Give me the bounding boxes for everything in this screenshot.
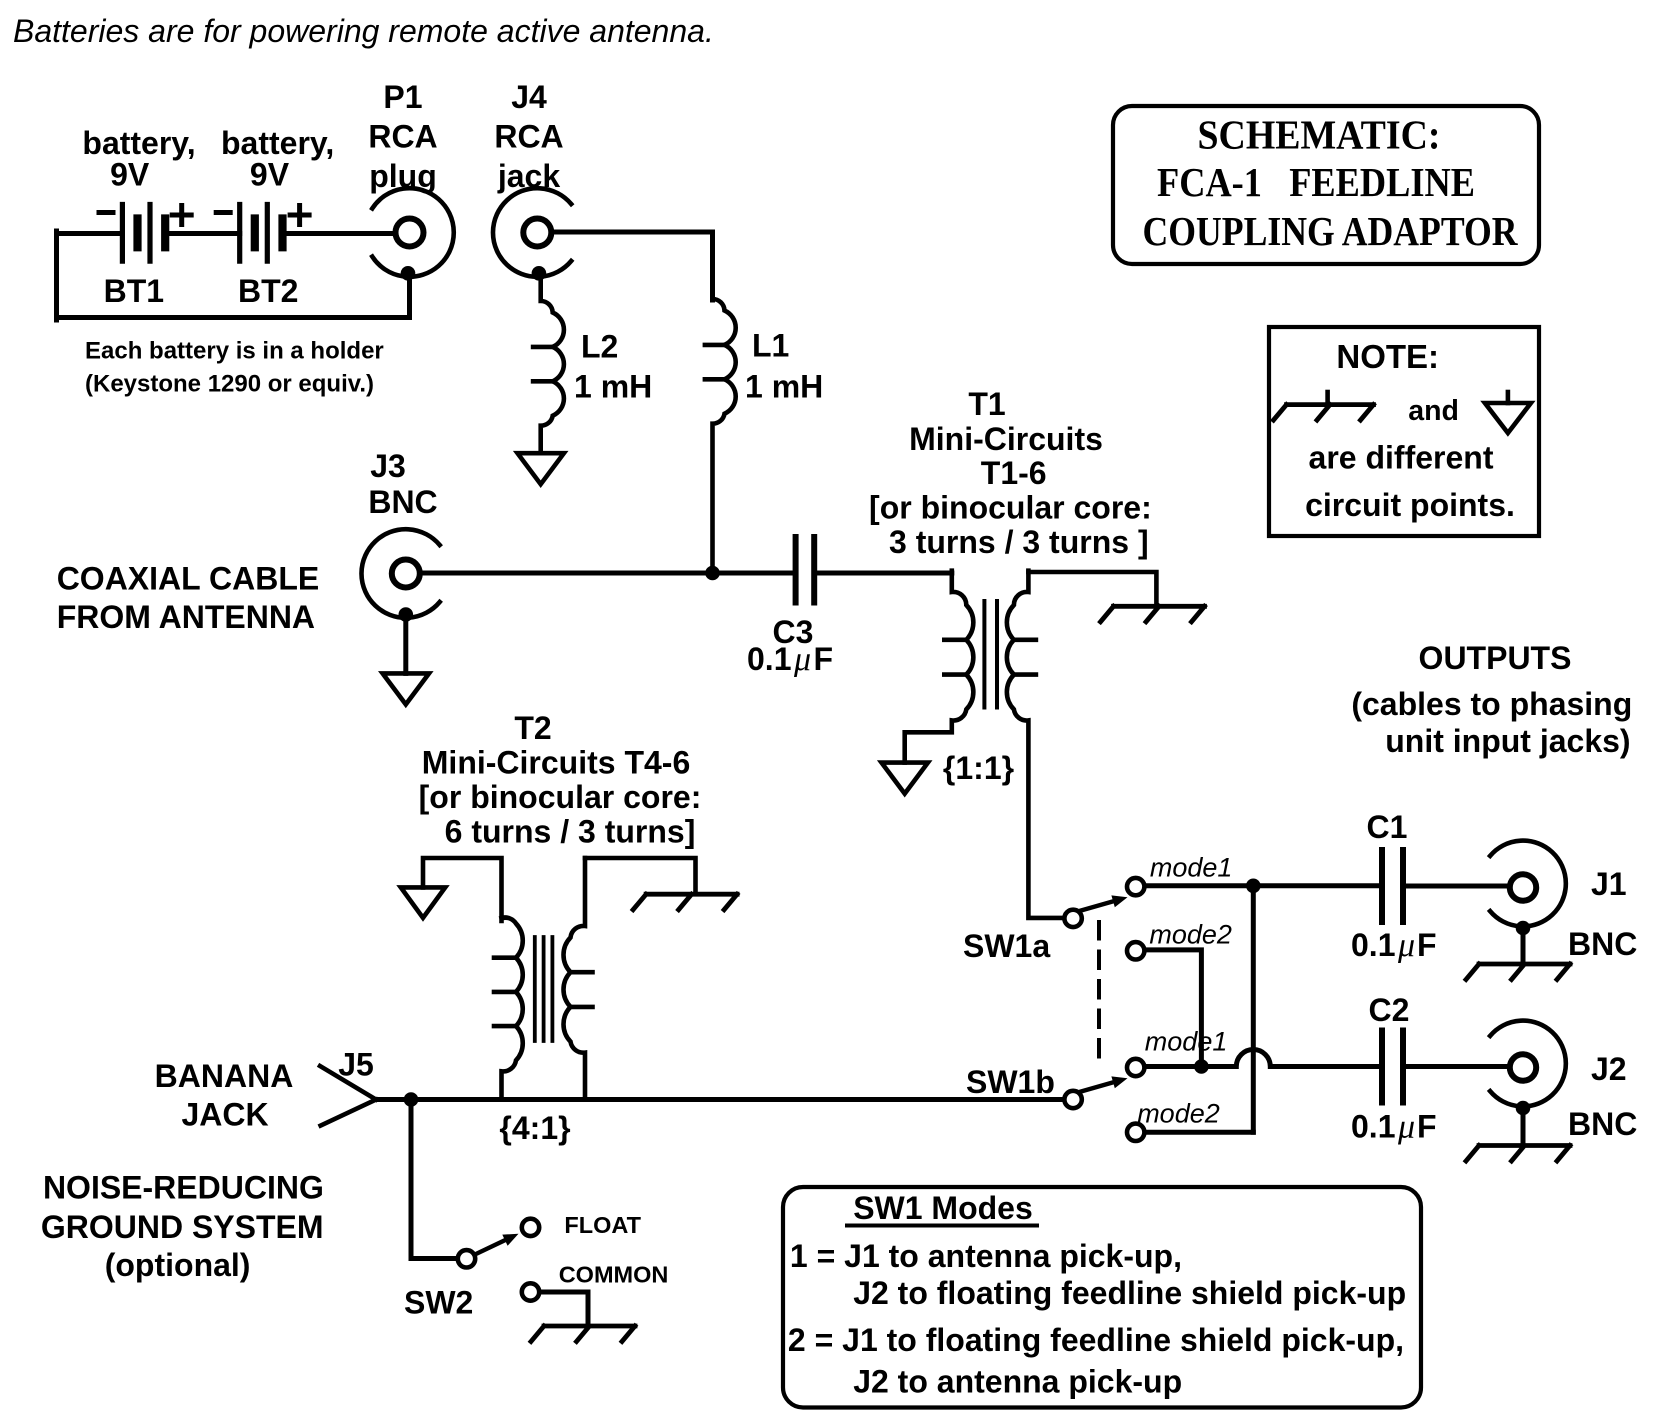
svg-text:Mini-Circuits T4-6: Mini-Circuits T4-6: [422, 745, 690, 781]
svg-text:0.1: 0.1: [1351, 927, 1395, 963]
svg-text:BNC: BNC: [1568, 926, 1637, 962]
svg-text:RCA: RCA: [494, 118, 563, 154]
svg-text:2 = J1 to floating feedline sh: 2 = J1 to floating feedline shield pick-…: [788, 1322, 1404, 1358]
svg-text:NOTE:: NOTE:: [1336, 338, 1439, 375]
svg-text:mode1: mode1: [1145, 1027, 1228, 1057]
svg-text:J5: J5: [338, 1047, 374, 1083]
svg-text:FLOAT: FLOAT: [564, 1212, 641, 1238]
svg-text:circuit points.: circuit points.: [1305, 487, 1515, 523]
svg-text:BT2: BT2: [238, 273, 298, 309]
svg-text:unit input jacks): unit input jacks): [1385, 723, 1630, 759]
svg-text:L1: L1: [752, 328, 789, 364]
svg-text:F: F: [1417, 1109, 1437, 1145]
svg-text:J4: J4: [511, 79, 547, 115]
svg-text:J1: J1: [1591, 866, 1627, 902]
svg-text:BNC: BNC: [1568, 1106, 1637, 1142]
svg-text:mode2: mode2: [1137, 1098, 1220, 1128]
svg-text:mode1: mode1: [1150, 853, 1233, 883]
svg-text:Each battery is in a holder: Each battery is in a holder: [85, 338, 384, 365]
svg-text:C2: C2: [1369, 992, 1410, 1028]
svg-text:0.1: 0.1: [1351, 1109, 1395, 1145]
svg-text:RCA: RCA: [368, 118, 437, 154]
svg-text:1 mH: 1 mH: [574, 369, 652, 405]
svg-text:P1: P1: [383, 79, 422, 115]
svg-text:μ: μ: [793, 641, 811, 678]
svg-text:mode2: mode2: [1149, 920, 1232, 950]
svg-text:[or binocular core:: [or binocular core:: [869, 490, 1152, 526]
svg-text:9V: 9V: [110, 157, 150, 193]
svg-text:BNC: BNC: [368, 484, 437, 520]
svg-text:F: F: [814, 641, 834, 677]
svg-text:SW1 Modes: SW1 Modes: [853, 1190, 1033, 1226]
svg-text:T2: T2: [514, 710, 551, 746]
svg-text:SCHEMATIC:: SCHEMATIC:: [1198, 112, 1441, 158]
svg-text:J2 to antenna pick-up: J2 to antenna pick-up: [853, 1364, 1182, 1400]
svg-text:1 mH: 1 mH: [745, 369, 823, 405]
svg-text:JACK: JACK: [181, 1097, 268, 1133]
svg-text:{4:1}: {4:1}: [499, 1110, 570, 1146]
svg-text:Mini-Circuits: Mini-Circuits: [909, 421, 1103, 457]
svg-text:1 = J1 to antenna pick-up,: 1 = J1 to antenna pick-up,: [790, 1238, 1182, 1274]
svg-text:μ: μ: [1397, 1109, 1415, 1146]
svg-text:BT1: BT1: [104, 273, 164, 309]
svg-text:(optional): (optional): [105, 1247, 251, 1283]
svg-text:COUPLING ADAPTOR: COUPLING ADAPTOR: [1143, 208, 1519, 254]
svg-text:BANANA: BANANA: [155, 1058, 294, 1094]
svg-text:F: F: [1417, 927, 1437, 963]
svg-text:NOISE-REDUCING: NOISE-REDUCING: [43, 1170, 324, 1206]
svg-text:[or binocular core:: [or binocular core:: [419, 779, 702, 815]
svg-text:T1-6: T1-6: [981, 455, 1047, 491]
svg-text:9V: 9V: [250, 157, 290, 193]
svg-text:C1: C1: [1367, 809, 1408, 845]
svg-text:Batteries are for powering rem: Batteries are for powering remote active…: [13, 13, 714, 49]
svg-text:SW1a: SW1a: [963, 928, 1050, 964]
svg-text:μ: μ: [1397, 927, 1415, 964]
svg-text:J2: J2: [1591, 1051, 1627, 1087]
svg-text:J2 to floating feedline shield: J2 to floating feedline shield pick-up: [853, 1275, 1406, 1311]
svg-text:J3: J3: [370, 448, 406, 484]
svg-text:T1: T1: [968, 386, 1005, 422]
svg-text:L2: L2: [581, 329, 618, 365]
svg-text:COAXIAL CABLE: COAXIAL CABLE: [57, 561, 320, 597]
svg-text:(cables to phasing: (cables to phasing: [1351, 686, 1632, 722]
svg-text:SW2: SW2: [404, 1285, 473, 1321]
svg-text:FROM ANTENNA: FROM ANTENNA: [57, 599, 315, 635]
svg-text:SW1b: SW1b: [966, 1064, 1055, 1100]
svg-text:{1:1}: {1:1}: [943, 750, 1014, 786]
svg-text:are different: are different: [1309, 440, 1494, 476]
svg-text:and: and: [1408, 395, 1459, 427]
svg-text:(Keystone 1290 or equiv.): (Keystone 1290 or equiv.): [85, 371, 374, 398]
svg-text:3 turns / 3 turns ]: 3 turns / 3 turns ]: [889, 524, 1149, 560]
svg-text:GROUND SYSTEM: GROUND SYSTEM: [41, 1209, 324, 1245]
svg-text:0.1: 0.1: [747, 641, 791, 677]
svg-text:6 turns / 3 turns]: 6 turns / 3 turns]: [445, 814, 696, 850]
svg-text:FCA-1 FEEDLINE: FCA-1 FEEDLINE: [1157, 159, 1475, 205]
svg-text:COMMON: COMMON: [559, 1261, 669, 1287]
svg-text:OUTPUTS: OUTPUTS: [1419, 640, 1572, 676]
